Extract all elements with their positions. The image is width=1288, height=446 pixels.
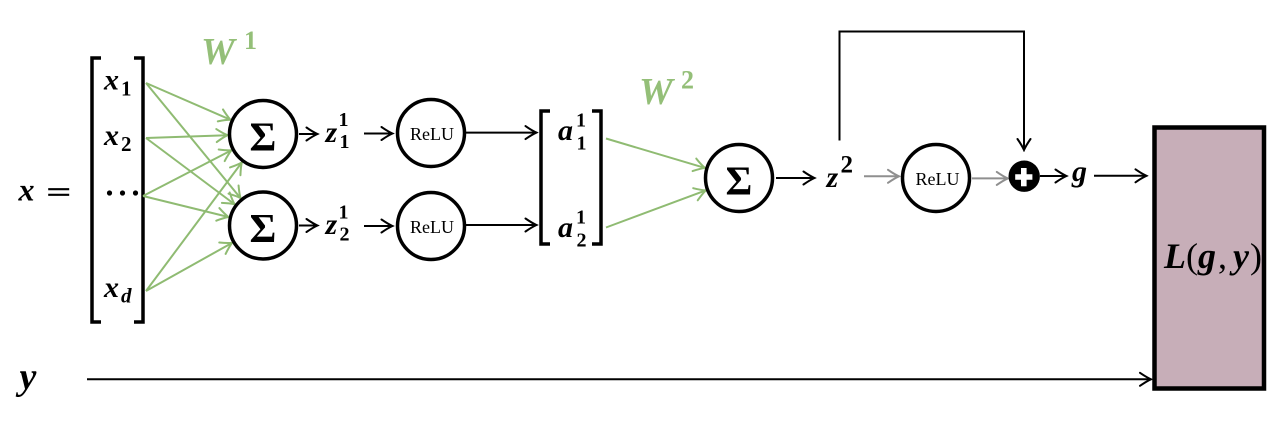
- svg-text:2: 2: [841, 152, 854, 179]
- input vector right bracket: [134, 58, 143, 322]
- loss box: [1155, 128, 1265, 389]
- svg-text:1: 1: [244, 26, 257, 55]
- svg-text:z: z: [826, 161, 839, 194]
- svg-text:2: 2: [340, 224, 350, 246]
- svg-text:a: a: [558, 114, 573, 147]
- node xd: [103, 271, 132, 308]
- svg-text:1: 1: [576, 207, 586, 229]
- wire sum1 to z11: [299, 133, 317, 135]
- svg-text:1: 1: [340, 131, 350, 153]
- node a21: [558, 207, 587, 252]
- svg-text:2: 2: [577, 230, 587, 252]
- wire dots to sum1: [143, 151, 231, 197]
- node z11: [325, 109, 350, 153]
- wire y to loss: [87, 378, 1151, 380]
- wire a11 to sum3: [606, 139, 705, 168]
- svg-text:1: 1: [577, 133, 587, 155]
- svg-text:x: x: [103, 63, 119, 96]
- svg-text:): ): [1250, 236, 1262, 276]
- svg-text:1: 1: [576, 110, 586, 132]
- svg-text:z: z: [325, 116, 338, 149]
- vector ellipsis dots: [107, 190, 138, 195]
- svg-text:y: y: [1229, 236, 1250, 276]
- svg-text:(: (: [1186, 236, 1198, 276]
- wire x1 to sum1: [146, 83, 230, 120]
- wire relu1 to a11: [466, 132, 537, 134]
- wire x2 to sum1: [146, 135, 227, 138]
- wire dots to sum2: [143, 196, 228, 217]
- svg-text:ReLU: ReLU: [410, 124, 454, 144]
- svg-text:W: W: [201, 31, 238, 73]
- svg-text:Σ: Σ: [726, 158, 753, 204]
- svg-text:,: ,: [1218, 236, 1227, 276]
- svg-text:1: 1: [339, 109, 349, 131]
- svg-text:d: d: [121, 284, 132, 308]
- relu unit 3: [903, 145, 970, 212]
- sum unit 2: [230, 192, 297, 259]
- wire z11 to relu1: [364, 133, 392, 135]
- wire x1 to sum2: [146, 83, 240, 198]
- node z2: [826, 152, 854, 195]
- wire relu2 to a21: [466, 224, 537, 226]
- activation vector right bracket: [592, 111, 601, 244]
- node a11: [558, 110, 587, 155]
- plus junction: [1008, 161, 1039, 192]
- svg-text:Σ: Σ: [250, 205, 277, 251]
- svg-text:g: g: [1197, 236, 1216, 276]
- svg-text:z: z: [325, 208, 338, 241]
- wire plus to g: [1040, 175, 1066, 177]
- svg-text:x: x: [103, 271, 119, 304]
- input vector left bracket: [92, 58, 101, 322]
- sum unit 3: [706, 145, 773, 212]
- svg-text:Σ: Σ: [250, 114, 277, 160]
- wire z2 to relu3: [864, 175, 899, 177]
- node x2: [103, 119, 132, 156]
- wire x2 to sum2: [146, 138, 234, 204]
- svg-text:g: g: [1071, 155, 1087, 188]
- node z21: [325, 202, 350, 246]
- svg-text:x: x: [18, 172, 35, 208]
- svg-text:ReLU: ReLU: [410, 217, 454, 237]
- wire sum2 to z21: [299, 225, 317, 227]
- svg-text:1: 1: [339, 202, 349, 224]
- wire xd to sum1: [146, 163, 242, 291]
- wire g to loss: [1094, 175, 1146, 177]
- svg-text:x: x: [103, 119, 119, 152]
- svg-text:2: 2: [681, 66, 694, 95]
- skip connection wire: [840, 32, 1025, 150]
- svg-text:W: W: [639, 71, 676, 113]
- label W1: [201, 26, 257, 73]
- svg-text:ReLU: ReLU: [916, 169, 960, 189]
- wire a21 to sum3: [606, 191, 705, 228]
- relu unit 2: [398, 193, 465, 260]
- wire relu3 to plus: [972, 177, 1007, 179]
- label W2: [639, 66, 694, 114]
- svg-text:1: 1: [121, 77, 132, 101]
- wire xd to sum2: [146, 243, 232, 291]
- svg-text:L: L: [1163, 236, 1186, 276]
- label x=: [18, 172, 70, 208]
- loss label L(g,y): [1163, 236, 1262, 276]
- wire sum3 to z2: [776, 177, 814, 179]
- wire z21 to relu2: [364, 225, 392, 227]
- activation vector left bracket: [541, 111, 550, 244]
- node x1: [103, 63, 132, 100]
- sum unit 1: [230, 101, 297, 168]
- svg-text:y: y: [16, 356, 37, 398]
- svg-text:2: 2: [121, 132, 132, 156]
- relu unit 1: [398, 100, 465, 167]
- svg-text:a: a: [558, 211, 573, 244]
